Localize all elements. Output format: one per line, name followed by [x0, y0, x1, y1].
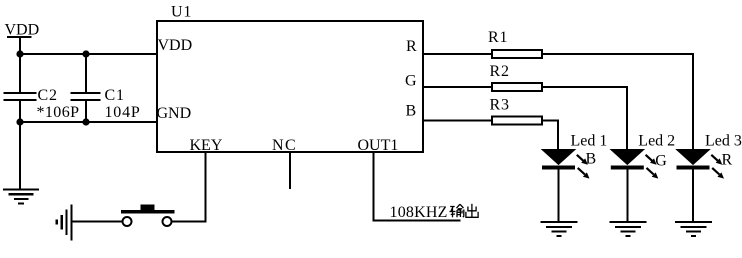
resistor R2: [492, 83, 542, 91]
wire B pin to R3: [423, 120, 492, 122]
LED Led3: [675, 133, 742, 237]
svg-text:U1: U1: [171, 4, 192, 21]
resistor R3: [492, 117, 542, 125]
wire cathode to ground: [558, 169, 560, 222]
wire OUT1 down and output line: [373, 153, 461, 221]
svg-text:G: G: [405, 73, 417, 90]
wire G pin to R2: [423, 86, 492, 88]
wire R1 to Led3: [542, 54, 693, 150]
arrow 2: [712, 168, 719, 175]
svg-text:R: R: [722, 152, 733, 169]
diode Led1 cathode bar: [542, 166, 575, 170]
ground symbol Led2: [609, 222, 646, 236]
wire VDD top rail to U1: [19, 53, 158, 55]
svg-text:*106P: *106P: [37, 104, 80, 121]
LED Led2: [609, 133, 675, 237]
wire GND bottom rail to U1: [19, 121, 158, 123]
svg-text:B: B: [406, 103, 417, 120]
switch S1 pushbutton: [121, 205, 175, 227]
svg-text:KEY: KEY: [190, 137, 223, 154]
wire cathode to ground: [692, 169, 694, 222]
svg-text:GND: GND: [157, 105, 192, 122]
svg-text:R3: R3: [490, 97, 510, 114]
wire R pin to R1: [423, 53, 492, 55]
wire cathode to ground: [626, 169, 628, 222]
svg-text:NC: NC: [272, 137, 297, 154]
junction dot VDD at C2: [16, 50, 23, 57]
resistor R1: [492, 50, 542, 58]
svg-text:VDD: VDD: [158, 37, 193, 54]
svg-text:R: R: [406, 38, 417, 55]
diode Led2 cathode bar: [611, 166, 644, 170]
svg-text:R2: R2: [490, 63, 510, 80]
svg-text:Led 3: Led 3: [705, 133, 742, 150]
junction dot VDD at C1: [82, 50, 89, 57]
capacitor C1 plates: [71, 93, 101, 100]
net VDD power flag: [5, 22, 40, 39]
diode Led3 triangle: [677, 150, 710, 165]
capacitor C2 plates: [4, 93, 37, 100]
wire NC stub: [289, 153, 291, 189]
ground symbol Led3: [675, 222, 712, 236]
svg-text:B: B: [586, 151, 597, 168]
svg-text:G: G: [655, 153, 667, 170]
ground symbol at switch (rotated): [57, 205, 72, 241]
svg-text:OUT1: OUT1: [358, 137, 399, 154]
hanzi chu (output): [466, 204, 478, 218]
ground symbol left: [3, 190, 39, 204]
arrow 1: [711, 155, 718, 161]
wire KEY pin down to switch: [171, 153, 206, 222]
wire VDD vertical from flag to top rail: [19, 38, 21, 93]
junction dot GND at C2: [16, 118, 23, 125]
ground symbol Led1: [541, 222, 578, 236]
arrow 2: [578, 168, 585, 175]
svg-text:R1: R1: [488, 29, 508, 46]
wire down to ground: [19, 122, 21, 189]
hanzi shu (output): [450, 204, 464, 217]
svg-text:C2: C2: [38, 87, 58, 104]
wire ground to switch: [72, 221, 123, 223]
diode Led1 triangle: [542, 150, 575, 165]
wire C2 lower lead: [19, 100, 21, 123]
diode Led2 triangle: [611, 150, 644, 165]
LED Led1: [541, 133, 608, 237]
wire R3 to Led1: [542, 121, 558, 151]
svg-text:C1: C1: [105, 87, 125, 104]
svg-text:Led 1: Led 1: [571, 133, 608, 150]
arrow 1: [646, 155, 653, 161]
arrow 1: [577, 155, 584, 161]
svg-text:104P: 104P: [105, 104, 141, 121]
wire R2 to Led2: [542, 87, 627, 150]
junction dot GND at C1: [82, 118, 89, 125]
svg-text:108KHZ: 108KHZ: [390, 204, 448, 221]
diode Led3 cathode bar: [677, 166, 710, 170]
IC U1 body: [157, 21, 423, 152]
arrow 2: [647, 168, 654, 175]
capacitor C1 leads: [85, 54, 87, 123]
svg-text:Led 2: Led 2: [638, 133, 675, 150]
svg-text:VDD: VDD: [5, 22, 40, 39]
